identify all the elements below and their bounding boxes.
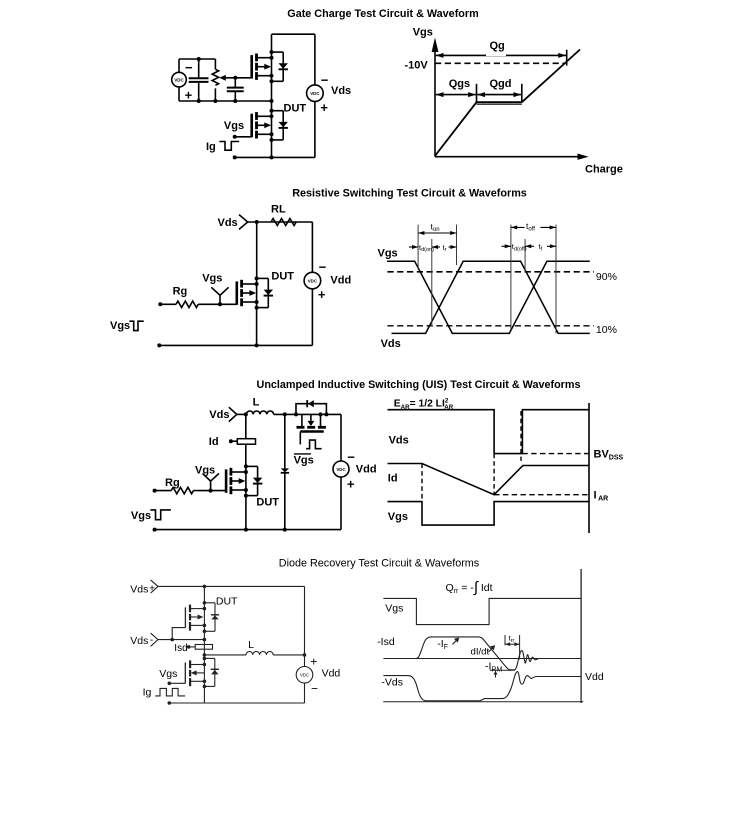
svg-text:+: + <box>318 287 326 302</box>
svg-text:Vgs: Vgs <box>131 510 151 522</box>
voltage source V1 (VDC) <box>172 72 187 87</box>
node dot Q5 bottom stub <box>203 680 207 684</box>
svg-text:Ig: Ig <box>143 687 152 699</box>
tick t_doff end <box>524 239 526 272</box>
node dot source rail left end <box>153 528 157 532</box>
node dot Q5 top stub <box>203 663 207 667</box>
svg-text:90%: 90% <box>596 271 617 283</box>
svg-text:Vds: Vds <box>389 434 409 446</box>
svg-text:−: − <box>347 450 355 465</box>
-Vds trace with recovery ringing <box>383 672 581 701</box>
svg-text:Vds: Vds <box>130 583 148 595</box>
wire V1 bottom lead <box>178 87 180 101</box>
potentiometer R1 <box>212 59 218 101</box>
wire bottom rail left <box>179 100 272 102</box>
wire DUT source vertical <box>256 308 258 346</box>
wire right loop lower <box>304 683 306 703</box>
tick t_off start <box>510 225 512 329</box>
section 1 waveform <box>405 27 623 176</box>
x-axis Charge <box>435 156 578 158</box>
diode D2 <box>307 400 314 407</box>
svg-text:-Vds: -Vds <box>381 677 403 689</box>
node dot Q4 bottom stub <box>203 624 207 628</box>
section 4 waveform <box>377 569 604 703</box>
label t_on <box>430 222 445 234</box>
node dot Vds- at main rail <box>203 638 207 642</box>
dashed vertical at turn-on <box>421 464 423 502</box>
svg-text:Vgs: Vgs <box>413 27 433 39</box>
Vds trace <box>388 410 590 454</box>
current sense box Id <box>237 439 255 445</box>
diode D1 <box>281 468 289 472</box>
svg-text:Vds: Vds <box>331 85 351 97</box>
t_rr left tick <box>504 635 506 645</box>
wire Rg to gate <box>193 490 226 492</box>
wire to inductor <box>204 654 246 656</box>
svg-text:Vdd: Vdd <box>330 274 351 286</box>
svg-text:Vds: Vds <box>130 635 148 647</box>
Vds trace <box>392 261 590 333</box>
svg-text:L: L <box>248 639 254 651</box>
svg-text:DUT: DUT <box>271 270 294 282</box>
node dot return rail left end <box>168 701 172 705</box>
svg-text:Vds: Vds <box>381 338 401 350</box>
section 2 waveform <box>378 247 617 350</box>
node dot Q5 gate input <box>168 682 172 686</box>
node dot Q2 source rail <box>270 155 274 159</box>
bottom axis line <box>383 701 583 703</box>
capacitor C2 <box>227 78 244 101</box>
svg-text:Resistive Switching Test Circu: Resistive Switching Test Circuit & Wavef… <box>292 188 527 200</box>
Vds+ probe chevron <box>151 580 158 593</box>
voltage source V4 (Vdd supply) <box>333 461 349 477</box>
svg-text:DUT: DUT <box>216 596 238 608</box>
t_off dimension arrow <box>511 225 556 229</box>
dashed IAR level <box>494 494 589 496</box>
wire input to Rg <box>155 490 172 492</box>
svg-text:Vgs: Vgs <box>195 465 215 477</box>
node dot gate drive input <box>158 302 162 306</box>
node dot R1 bottom <box>213 99 217 103</box>
body diode of Q5 (pointing up) <box>211 669 219 674</box>
svg-text:DUT: DUT <box>284 103 307 115</box>
t_d(off) outside arrow <box>502 244 511 248</box>
wire Q2 source down <box>271 140 273 158</box>
wire bottom rail <box>169 702 304 704</box>
tick t_off end <box>555 225 557 334</box>
wire right loop lower <box>311 289 313 346</box>
-IF pointer arrow <box>453 638 460 645</box>
svg-text:Ig: Ig <box>206 141 216 153</box>
wire bottom rail <box>155 529 341 531</box>
wire right loop upper <box>311 222 313 272</box>
inductor L <box>246 652 273 655</box>
-Isd zero axis <box>383 658 581 660</box>
wire clamp diode branch upper <box>284 414 286 468</box>
node dot clamp branch top <box>283 412 287 416</box>
svg-text:-Isd: -Isd <box>377 636 395 648</box>
svg-text:Qg: Qg <box>490 40 505 52</box>
dashed vertical at avalanche start <box>493 454 495 495</box>
transistor DUT <box>226 464 262 497</box>
Vgs trace <box>383 598 581 624</box>
svg-text:DUT: DUT <box>256 496 279 508</box>
tick t_don end <box>431 239 433 326</box>
Ig pulse train glyph <box>155 688 185 696</box>
node dot Id tap <box>229 439 233 443</box>
svg-text:Rg: Rg <box>165 477 180 489</box>
voltage source V2 (Vds supply) <box>307 85 324 102</box>
wire right loop lower <box>314 102 316 158</box>
Vds- probe chevron <box>151 633 158 646</box>
wire wiper to gate of Q1 <box>235 77 251 79</box>
t_r right arrowhead <box>449 245 457 249</box>
voltage source V3 (Vdd supply) <box>304 272 321 289</box>
svg-text:+: + <box>185 87 193 102</box>
wire clamp diode branch lower <box>284 473 286 530</box>
wire DUT drain lower <box>245 444 247 466</box>
dashed 90% line <box>387 271 594 273</box>
wire bottom rail <box>159 344 312 346</box>
svg-text:Vgs: Vgs <box>159 668 177 680</box>
svg-text:Vdd: Vdd <box>322 667 341 679</box>
node dot wiper junction <box>233 76 237 80</box>
node dot top rail junction <box>203 585 207 589</box>
svg-text:Diode Recovery Test Circuit &: Diode Recovery Test Circuit & Waveforms <box>279 558 480 570</box>
wire Q5 gate lead <box>169 682 185 684</box>
svg-text:Vdd: Vdd <box>585 671 604 683</box>
svg-text:VDC: VDC <box>336 467 346 472</box>
svg-text:dI/dt: dI/dt <box>471 646 490 657</box>
transistor Q5 (lower switch) <box>185 658 215 703</box>
gate charge curve <box>435 50 580 156</box>
tick t_on start <box>417 225 419 270</box>
IRM level line <box>490 669 515 671</box>
x-axis arrowhead <box>578 154 589 160</box>
wire Vds- node <box>158 639 204 641</box>
Qg label <box>486 40 506 56</box>
Vgs probe fork <box>211 287 228 304</box>
node dot drain tap <box>244 412 248 416</box>
svg-text:Vgs: Vgs <box>385 603 403 615</box>
wire input to Rg <box>160 303 176 305</box>
wire Isd tap <box>189 646 196 648</box>
y-axis arrowhead <box>432 38 439 53</box>
resistor RL <box>271 219 296 226</box>
svg-text:Id: Id <box>209 436 219 448</box>
dashed BVDSS level <box>522 453 589 455</box>
svg-text:VDC: VDC <box>174 77 184 82</box>
svg-text:Unclamped Inductive Switching: Unclamped Inductive Switching (UIS) Test… <box>257 379 581 391</box>
dashed vertical at avalanche end <box>520 411 522 461</box>
inductor L <box>246 411 273 414</box>
transistor Q1 (upper MOSFET) <box>252 50 288 83</box>
svg-text:-IF: -IF <box>437 638 448 651</box>
svg-text:L: L <box>253 397 260 409</box>
svg-text:Vgs: Vgs <box>388 511 408 523</box>
svg-text:−: − <box>311 682 318 696</box>
node dot supply tap <box>303 653 307 657</box>
Qgs tick <box>476 84 478 102</box>
node dot return rail left end <box>233 155 237 159</box>
wire Q1 drain to top rail <box>271 34 273 52</box>
Vds probe chevron <box>229 407 237 421</box>
node dot clamp branch rail <box>283 528 287 532</box>
wire top rail left <box>179 58 215 60</box>
t_f right arrowhead <box>547 244 556 248</box>
tick t_on end <box>456 225 458 265</box>
node dot C1 bottom <box>197 99 201 103</box>
svg-text:Gate Charge Test Circuit & Wav: Gate Charge Test Circuit & Waveform <box>287 8 478 20</box>
Vgs trace <box>388 502 589 525</box>
svg-text:−: − <box>185 60 193 75</box>
resistor Rg <box>171 487 193 493</box>
svg-text:10%: 10% <box>596 324 617 336</box>
wire Rg to gate <box>198 303 237 305</box>
svg-text:td(off): td(off) <box>512 242 527 252</box>
wire top rail left <box>237 413 247 415</box>
svg-text:Id: Id <box>388 473 398 485</box>
Vgs pulse glyph <box>129 321 143 330</box>
svg-text:+: + <box>149 583 155 595</box>
-Isd trace with recovery ringing <box>416 637 543 670</box>
svg-text:−: − <box>321 72 329 87</box>
svg-text:Vgs: Vgs <box>294 455 314 467</box>
node dot Vgs probe junction <box>209 489 213 493</box>
Vds probe chevron <box>239 215 248 230</box>
node dot Q4 branch bottom <box>203 630 207 634</box>
right border line <box>580 569 582 703</box>
node dot loop left <box>294 412 298 416</box>
node dot loop right <box>324 412 328 416</box>
t_rr right tick <box>519 635 521 659</box>
svg-text:IAR: IAR <box>594 489 609 502</box>
svg-text:Vgs: Vgs <box>224 120 244 132</box>
svg-text:BVDSS: BVDSS <box>594 449 624 462</box>
svg-text:Qrr = -∫ Idt: Qrr = -∫ Idt <box>446 579 493 596</box>
Qgd dimension arrow <box>477 92 521 97</box>
wire inductor to supply <box>273 654 304 656</box>
node dot Isd tap <box>187 645 191 649</box>
svg-text:Charge: Charge <box>585 164 623 176</box>
svg-text:tf: tf <box>539 242 543 252</box>
clamp MOSFET Q3 antiparallel diode loop <box>296 404 326 415</box>
Qg end tick <box>566 50 568 66</box>
svg-text:Vds: Vds <box>218 217 238 229</box>
overline of Vgs label <box>294 453 311 455</box>
svg-text:Vgs: Vgs <box>378 247 398 259</box>
node dot Vgs probe junction <box>218 302 222 306</box>
svg-text:VDC: VDC <box>300 673 309 678</box>
wire Q4 gate staircase <box>172 628 185 640</box>
Qgs dimension arrow <box>436 92 476 97</box>
node dot gate junction <box>170 638 174 642</box>
wire DUT drain upper <box>245 414 247 438</box>
Id trace <box>388 464 589 495</box>
t_f left arrowhead <box>525 244 534 248</box>
svg-text:Vgs: Vgs <box>110 320 130 332</box>
node dot source rail left end <box>157 343 161 347</box>
voltage source V5 (Vdd supply) <box>296 667 313 684</box>
wire main vertical through sense box <box>203 640 205 659</box>
resistor Rg <box>176 301 198 307</box>
node dot DUT source rail <box>244 528 248 532</box>
label t_off <box>525 221 541 233</box>
wire gate lead Q2 <box>235 136 252 138</box>
node dot Q5 branch top <box>203 657 207 661</box>
y-axis Vgs <box>434 49 436 157</box>
svg-text:Qgs: Qgs <box>449 78 470 90</box>
gate charge curve plateau doubling <box>477 103 522 105</box>
svg-text:Vdd: Vdd <box>356 464 377 476</box>
section 3 waveform <box>388 398 624 534</box>
svg-text:Rg: Rg <box>173 285 188 297</box>
Vgs trace <box>387 261 590 333</box>
current sense box Isd <box>195 645 212 650</box>
node dot Q4 top stub <box>203 607 207 611</box>
wire DUT drain vertical <box>256 222 258 279</box>
node dot inductor tap <box>203 653 207 657</box>
svg-text:+: + <box>347 477 355 492</box>
t_r left arrowhead <box>432 245 440 249</box>
svg-text:RL: RL <box>271 204 286 216</box>
wire right loop upper <box>314 34 316 85</box>
t_d(on) outside arrow <box>409 245 418 249</box>
capacitor C1 <box>189 59 209 101</box>
svg-text:Isd: Isd <box>174 643 187 654</box>
svg-text:+: + <box>310 655 317 669</box>
wire V1 top lead <box>178 59 180 72</box>
wire DUT source down <box>245 496 247 530</box>
wire top rail <box>158 585 305 587</box>
Vgs probe fork <box>203 473 220 490</box>
dashed -10V level line <box>435 62 564 64</box>
node dot gate input <box>153 489 157 493</box>
dI/dt pointer arrow <box>489 645 496 652</box>
transistor DUT <box>237 276 273 309</box>
svg-text:EAR= 1/2 LI2AR: EAR= 1/2 LI2AR <box>394 398 454 411</box>
svg-text:tr: tr <box>443 243 447 253</box>
transistor Q2 DUT <box>252 109 288 142</box>
svg-text:−: − <box>319 260 327 275</box>
node dot Q4 branch top <box>203 601 207 605</box>
wire Q1 source to Q2 drain <box>271 81 273 110</box>
wire top rail right <box>274 413 341 415</box>
transistor Q4 (upper DUT) <box>185 586 215 639</box>
body diode of Q4 (pointing up) <box>211 615 219 620</box>
node dot bottom rail junction <box>270 99 274 103</box>
Q3 gate pulse glyph <box>306 440 322 449</box>
node dot C2 bottom <box>233 99 237 103</box>
Vgs pulse glyph <box>150 510 171 520</box>
Qgd tick <box>521 84 523 102</box>
node dot gate drive input <box>233 135 237 139</box>
Ig pulse glyph <box>219 142 239 151</box>
node dot drain junction <box>255 220 259 224</box>
svg-text:Vds: Vds <box>209 409 229 421</box>
svg-text:-IRM: -IRM <box>485 660 502 673</box>
node dot Q5 branch bottom <box>203 685 207 689</box>
wire right loop lower <box>340 477 342 530</box>
wire bottom return rail <box>235 156 315 158</box>
svg-text:VDC: VDC <box>310 91 320 96</box>
wire right loop upper <box>304 586 306 666</box>
t_on dimension arrow <box>418 231 456 235</box>
right border line <box>588 403 590 533</box>
node dot source rail junction <box>255 343 259 347</box>
-IRM pointer arrow (up to level) <box>494 671 498 678</box>
wire top rail <box>248 221 313 223</box>
Qg dimension arrow <box>436 53 567 58</box>
transistor Q3 (clamp switch, rotated) <box>297 414 326 444</box>
svg-text:trr: trr <box>509 634 515 644</box>
svg-text:VDC: VDC <box>308 278 318 283</box>
wire top rail right <box>272 33 315 35</box>
node dot C1 top <box>197 57 201 61</box>
svg-text:-10V: -10V <box>405 60 429 72</box>
wiper arrow of R1 <box>219 75 235 81</box>
wire Id tap <box>231 440 237 442</box>
svg-text:Vgs: Vgs <box>202 273 222 285</box>
t_rr dimension arrows (inside) <box>505 642 520 646</box>
node dot Q3 left stub <box>319 412 323 416</box>
wire right loop upper <box>340 414 342 461</box>
svg-text:+: + <box>320 100 328 115</box>
dashed 10% line <box>387 325 594 327</box>
svg-text:Qgd: Qgd <box>490 78 512 90</box>
